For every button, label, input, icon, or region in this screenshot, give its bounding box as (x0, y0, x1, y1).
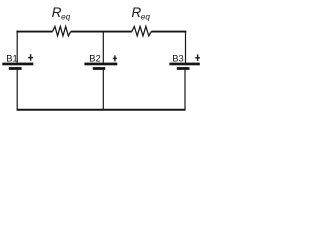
battery B1 negative plate (9, 67, 22, 70)
svg-text:B2: B2 (89, 52, 100, 63)
plus sign B3 (195, 54, 200, 60)
svg-text:eq: eq (61, 13, 71, 22)
battery B3 negative plate (177, 67, 190, 70)
wire top rail left segment (16, 31, 52, 33)
battery B2 negative plate (93, 67, 105, 70)
wire B3 to bottom rail (184, 70, 186, 110)
wire top rail right segment (151, 31, 186, 33)
wire B2 to bottom rail (102, 70, 104, 110)
battery B2 positive plate (84, 63, 117, 66)
wire right drop to B3 (185, 31, 187, 63)
svg-text:eq: eq (141, 13, 151, 22)
plus sign B2 (113, 55, 117, 61)
svg-text:B3: B3 (172, 52, 183, 63)
wire bottom rail (17, 109, 186, 111)
battery B1 positive plate (2, 63, 33, 66)
battery B3 positive plate (169, 63, 199, 66)
resistor R2 (132, 26, 151, 36)
plus sign B1 (28, 54, 33, 61)
wire top rail middle segment (71, 31, 132, 33)
wire B1 to bottom rail (16, 70, 18, 110)
svg-text:B1: B1 (6, 52, 17, 63)
resistor R1 (53, 26, 71, 36)
wire left drop to B1 (16, 31, 18, 63)
wire middle drop to B2 (102, 32, 104, 62)
